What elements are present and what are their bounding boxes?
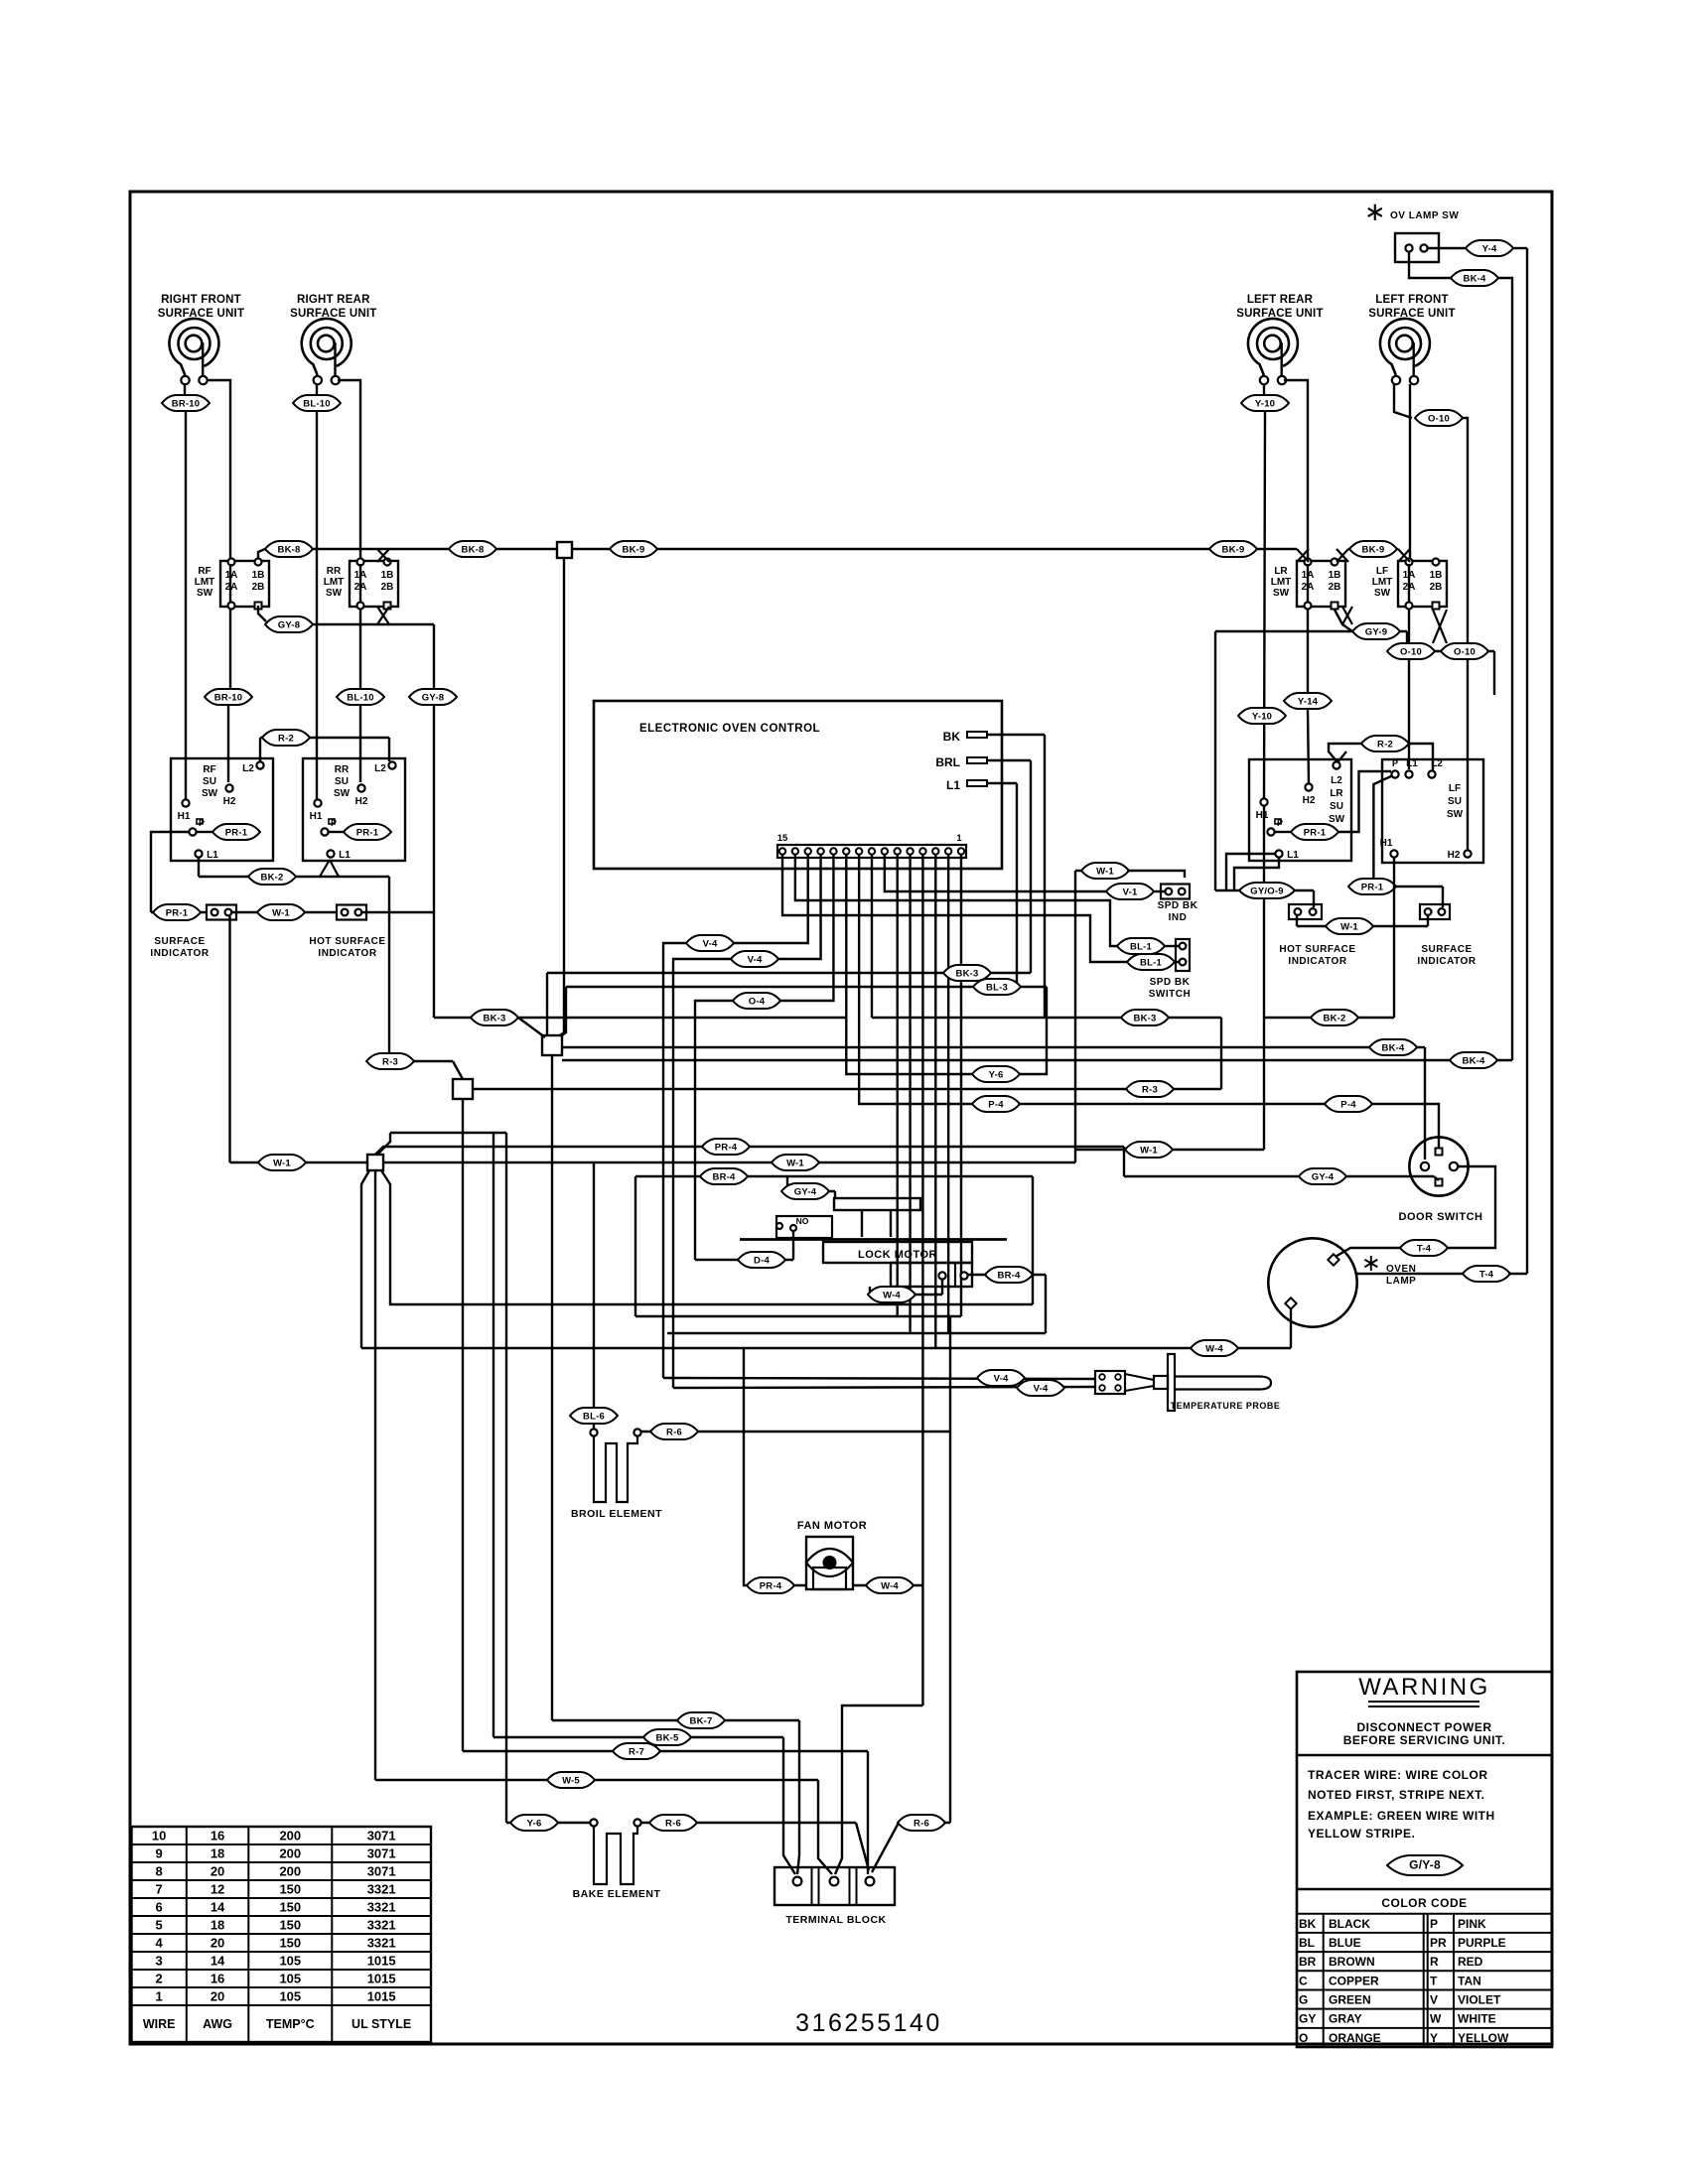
svg-text:15: 15: [777, 833, 788, 844]
svg-text:R-3: R-3: [1142, 1084, 1158, 1095]
svg-text:IND: IND: [1169, 912, 1188, 923]
svg-text:14: 14: [211, 1954, 225, 1969]
svg-text:SWITCH: SWITCH: [1149, 989, 1191, 1000]
svg-text:SURFACE: SURFACE: [154, 936, 205, 947]
svg-text:H1: H1: [1256, 810, 1269, 821]
svg-text:3321: 3321: [367, 1900, 396, 1915]
svg-text:UL STYLE: UL STYLE: [352, 2017, 411, 2031]
svg-text:105: 105: [279, 1954, 301, 1969]
svg-text:PR-1: PR-1: [225, 827, 248, 838]
svg-text:YELLOW STRIPE.: YELLOW STRIPE.: [1308, 1827, 1415, 1841]
svg-text:EXAMPLE: GREEN WIRE WITH: EXAMPLE: GREEN WIRE WITH: [1308, 1809, 1495, 1823]
svg-text:H1: H1: [310, 811, 323, 822]
svg-text:H2: H2: [355, 796, 368, 807]
svg-text:P: P: [1430, 1917, 1438, 1931]
svg-text:P: P: [1392, 758, 1398, 768]
svg-text:SU: SU: [203, 776, 216, 787]
svg-text:TERMINAL BLOCK: TERMINAL BLOCK: [785, 1914, 886, 1926]
svg-text:BK-3: BK-3: [484, 1013, 506, 1024]
svg-text:4: 4: [156, 1936, 164, 1951]
svg-text:105: 105: [279, 1972, 301, 1986]
svg-text:Y-6: Y-6: [527, 1818, 542, 1829]
svg-text:H2: H2: [223, 796, 236, 807]
svg-text:150: 150: [279, 1900, 301, 1915]
svg-text:BR-4: BR-4: [998, 1270, 1021, 1281]
svg-text:LF: LF: [1449, 783, 1461, 794]
svg-text:LMT: LMT: [324, 577, 345, 588]
svg-text:150: 150: [279, 1918, 301, 1933]
svg-text:GREEN: GREEN: [1329, 1993, 1371, 2007]
svg-text:TAN: TAN: [1458, 1974, 1481, 1987]
svg-text:LOCK MOTOR: LOCK MOTOR: [858, 1249, 937, 1261]
svg-text:105: 105: [279, 1989, 301, 2004]
svg-text:R-6: R-6: [914, 1818, 929, 1829]
svg-text:16: 16: [211, 1972, 224, 1986]
svg-text:VIOLET: VIOLET: [1458, 1993, 1501, 2007]
svg-text:2B: 2B: [1329, 582, 1341, 593]
svg-text:LMT: LMT: [1271, 577, 1292, 588]
svg-text:W: W: [1430, 2012, 1442, 2026]
svg-text:O-10: O-10: [1454, 646, 1476, 657]
svg-text:R-6: R-6: [666, 1427, 682, 1437]
svg-text:Y-6: Y-6: [989, 1069, 1004, 1080]
svg-text:G/Y-8: G/Y-8: [1409, 1857, 1441, 1871]
svg-text:BL: BL: [1299, 1936, 1315, 1950]
svg-text:BK: BK: [1299, 1917, 1317, 1931]
svg-text:WARNING: WARNING: [1358, 1674, 1490, 1701]
svg-text:BR: BR: [1299, 1955, 1317, 1969]
svg-text:SPD BK: SPD BK: [1150, 977, 1191, 988]
svg-text:RED: RED: [1458, 1955, 1483, 1969]
svg-text:16: 16: [211, 1829, 224, 1843]
svg-text:HOT SURFACE: HOT SURFACE: [1279, 944, 1355, 955]
svg-text:18: 18: [211, 1846, 224, 1861]
svg-text:INDICATOR: INDICATOR: [1417, 956, 1476, 967]
svg-text:14: 14: [211, 1900, 225, 1915]
svg-text:GRAY: GRAY: [1329, 2012, 1362, 2026]
svg-text:SU: SU: [1448, 796, 1462, 807]
svg-text:GY-8: GY-8: [422, 692, 444, 703]
svg-text:6: 6: [156, 1900, 163, 1915]
svg-text:D-4: D-4: [754, 1255, 770, 1266]
svg-text:BL-10: BL-10: [347, 692, 373, 703]
svg-text:BK-3: BK-3: [1134, 1013, 1157, 1024]
svg-text:LEFT REAR: LEFT REAR: [1247, 294, 1314, 306]
svg-text:PINK: PINK: [1458, 1917, 1486, 1931]
svg-text:W-1: W-1: [786, 1158, 804, 1168]
svg-text:BK-3: BK-3: [956, 968, 979, 979]
svg-text:OV LAMP SW: OV LAMP SW: [1390, 210, 1459, 221]
svg-text:BR-10: BR-10: [172, 398, 200, 409]
svg-text:GY-9: GY-9: [1365, 626, 1387, 637]
svg-text:BK-2: BK-2: [261, 872, 284, 883]
svg-text:W-4: W-4: [881, 1580, 899, 1591]
svg-text:GY-8: GY-8: [278, 619, 300, 630]
svg-text:Y-14: Y-14: [1298, 696, 1319, 707]
svg-text:SURFACE UNIT: SURFACE UNIT: [158, 308, 244, 320]
svg-text:10: 10: [152, 1829, 166, 1843]
svg-text:LMT: LMT: [195, 577, 215, 588]
svg-text:BK-5: BK-5: [656, 1732, 679, 1743]
svg-text:BL-10: BL-10: [303, 398, 330, 409]
svg-text:RIGHT FRONT: RIGHT FRONT: [161, 294, 241, 306]
svg-text:BL-3: BL-3: [986, 982, 1008, 993]
svg-text:3: 3: [156, 1954, 163, 1969]
svg-text:7: 7: [156, 1882, 163, 1897]
svg-text:BROWN: BROWN: [1329, 1955, 1375, 1969]
svg-text:SW: SW: [1447, 809, 1464, 820]
svg-text:5: 5: [156, 1918, 163, 1933]
svg-text:BEFORE SERVICING UNIT.: BEFORE SERVICING UNIT.: [1343, 1733, 1505, 1747]
svg-text:SURFACE UNIT: SURFACE UNIT: [1236, 308, 1323, 320]
svg-text:Y-10: Y-10: [1252, 711, 1272, 722]
svg-text:2: 2: [156, 1972, 163, 1986]
svg-text:W-4: W-4: [1205, 1343, 1223, 1354]
svg-text:PR-1: PR-1: [356, 827, 379, 838]
svg-text:AWG: AWG: [203, 2017, 232, 2031]
svg-text:20: 20: [211, 1989, 224, 2004]
svg-text:O-4: O-4: [749, 996, 766, 1007]
svg-text:150: 150: [279, 1882, 301, 1897]
svg-text:BK-9: BK-9: [1362, 544, 1385, 555]
svg-text:NO: NO: [796, 1216, 809, 1226]
svg-text:V-4: V-4: [1034, 1383, 1049, 1394]
svg-text:316255140: 316255140: [795, 2009, 942, 2037]
svg-text:BK-2: BK-2: [1324, 1013, 1346, 1024]
svg-text:BK-9: BK-9: [1222, 544, 1245, 555]
svg-text:PR-4: PR-4: [715, 1142, 738, 1153]
svg-text:BL-1: BL-1: [1140, 957, 1162, 968]
svg-text:TEMP°C: TEMP°C: [266, 2017, 315, 2031]
svg-text:1B: 1B: [252, 570, 265, 581]
svg-text:PR-4: PR-4: [760, 1580, 782, 1591]
svg-text:W-5: W-5: [562, 1775, 580, 1786]
svg-text:PURPLE: PURPLE: [1458, 1936, 1506, 1950]
svg-text:R-2: R-2: [278, 733, 294, 744]
svg-text:SU: SU: [1330, 801, 1343, 812]
svg-text:2B: 2B: [1430, 582, 1443, 593]
svg-text:DOOR SWITCH: DOOR SWITCH: [1399, 1211, 1483, 1223]
svg-text:BK-4: BK-4: [1382, 1042, 1405, 1053]
svg-text:O: O: [1299, 2031, 1308, 2045]
svg-text:L1: L1: [1406, 758, 1418, 769]
svg-text:GY: GY: [1299, 2012, 1316, 2026]
svg-text:SW: SW: [1374, 588, 1391, 599]
svg-text:3321: 3321: [367, 1936, 396, 1951]
svg-text:SW: SW: [197, 588, 213, 599]
svg-text:INDICATOR: INDICATOR: [1288, 956, 1346, 967]
svg-text:SPD BK: SPD BK: [1158, 900, 1198, 911]
svg-text:L1: L1: [946, 778, 960, 792]
svg-text:SU: SU: [335, 776, 349, 787]
svg-text:1: 1: [156, 1989, 163, 2004]
svg-text:20: 20: [211, 1936, 224, 1951]
svg-text:9: 9: [156, 1846, 163, 1861]
svg-text:ELECTRONIC OVEN CONTROL: ELECTRONIC OVEN CONTROL: [639, 723, 820, 735]
svg-text:SW: SW: [1273, 588, 1290, 599]
svg-text:1B: 1B: [1329, 570, 1341, 581]
svg-text:BK-9: BK-9: [623, 544, 645, 555]
svg-text:3321: 3321: [367, 1918, 396, 1933]
svg-text:RF: RF: [203, 764, 215, 775]
svg-text:R-3: R-3: [382, 1056, 398, 1067]
svg-text:BL-6: BL-6: [583, 1411, 605, 1422]
svg-text:L1: L1: [1287, 850, 1299, 861]
svg-text:L1: L1: [339, 850, 351, 861]
svg-text:L2: L2: [1331, 775, 1342, 786]
svg-text:TRACER WIRE: WIRE COLOR: TRACER WIRE: WIRE COLOR: [1308, 1768, 1488, 1782]
svg-text:3071: 3071: [367, 1829, 396, 1843]
svg-text:1015: 1015: [367, 1954, 396, 1969]
svg-text:RIGHT REAR: RIGHT REAR: [297, 294, 370, 306]
svg-text:COLOR CODE: COLOR CODE: [1381, 1896, 1467, 1910]
svg-text:1B: 1B: [381, 570, 394, 581]
svg-text:V-4: V-4: [994, 1373, 1009, 1384]
svg-text:V-4: V-4: [748, 954, 763, 965]
svg-text:1015: 1015: [367, 1972, 396, 1986]
svg-text:V-1: V-1: [1123, 887, 1138, 897]
svg-text:Y-4: Y-4: [1482, 243, 1497, 254]
svg-text:BK-8: BK-8: [278, 544, 301, 555]
svg-text:BK-4: BK-4: [1464, 273, 1486, 284]
svg-text:LAMP: LAMP: [1386, 1276, 1416, 1287]
svg-text:R-2: R-2: [1377, 739, 1393, 750]
svg-text:PR-1: PR-1: [1361, 882, 1384, 892]
svg-text:H1: H1: [1380, 838, 1393, 849]
svg-text:O-10: O-10: [1400, 646, 1422, 657]
svg-text:FAN MOTOR: FAN MOTOR: [797, 1520, 867, 1532]
svg-text:V-4: V-4: [703, 938, 718, 949]
svg-text:W-1: W-1: [273, 1158, 291, 1168]
svg-text:Y: Y: [1430, 2031, 1438, 2045]
svg-text:1B: 1B: [1430, 570, 1443, 581]
svg-text:R-7: R-7: [629, 1746, 644, 1757]
svg-text:T-4: T-4: [1417, 1243, 1432, 1254]
svg-text:P-4: P-4: [988, 1099, 1004, 1110]
svg-text:8: 8: [156, 1864, 163, 1879]
svg-text:BK-8: BK-8: [462, 544, 485, 555]
svg-text:L1: L1: [207, 850, 218, 861]
svg-text:GY-4: GY-4: [794, 1186, 817, 1197]
svg-text:3071: 3071: [367, 1846, 396, 1861]
svg-text:PR-1: PR-1: [166, 907, 189, 918]
svg-text:SURFACE UNIT: SURFACE UNIT: [1368, 308, 1455, 320]
svg-text:200: 200: [279, 1829, 301, 1843]
svg-text:SW: SW: [202, 788, 218, 799]
svg-text:P-4: P-4: [1340, 1099, 1356, 1110]
svg-text:Y-10: Y-10: [1255, 398, 1275, 409]
svg-text:12: 12: [211, 1882, 224, 1897]
svg-text:G: G: [1299, 1993, 1308, 2007]
svg-text:BLACK: BLACK: [1329, 1917, 1370, 1931]
svg-text:TEMPERATURE PROBE: TEMPERATURE PROBE: [1171, 1401, 1281, 1411]
svg-text:L2: L2: [374, 763, 386, 774]
svg-text:BK-7: BK-7: [690, 1715, 713, 1726]
svg-text:NOTED FIRST, STRIPE NEXT.: NOTED FIRST, STRIPE NEXT.: [1308, 1788, 1485, 1802]
svg-text:200: 200: [279, 1846, 301, 1861]
svg-text:∗: ∗: [1364, 197, 1386, 226]
svg-text:R-6: R-6: [665, 1818, 681, 1829]
svg-text:BK: BK: [943, 730, 961, 744]
svg-text:COPPER: COPPER: [1329, 1974, 1379, 1987]
svg-text:20: 20: [211, 1864, 224, 1879]
svg-text:150: 150: [279, 1936, 301, 1951]
svg-text:3321: 3321: [367, 1882, 396, 1897]
svg-text:H1: H1: [178, 811, 191, 822]
svg-text:LEFT FRONT: LEFT FRONT: [1375, 294, 1449, 306]
svg-text:SURFACE: SURFACE: [1421, 944, 1472, 955]
svg-text:DISCONNECT POWER: DISCONNECT POWER: [1356, 1720, 1491, 1734]
svg-text:W-1: W-1: [1140, 1145, 1158, 1156]
svg-text:BL-1: BL-1: [1130, 941, 1152, 952]
svg-text:LF: LF: [1376, 566, 1388, 577]
svg-text:RR: RR: [335, 764, 350, 775]
svg-text:PR-1: PR-1: [1304, 827, 1327, 838]
svg-text:SW: SW: [334, 788, 351, 799]
svg-text:H2: H2: [1303, 795, 1316, 806]
svg-text:T: T: [1430, 1974, 1438, 1987]
svg-text:INDICATOR: INDICATOR: [318, 948, 376, 959]
svg-text:W-1: W-1: [272, 907, 290, 918]
svg-text:BROIL ELEMENT: BROIL ELEMENT: [571, 1508, 662, 1520]
svg-text:SURFACE UNIT: SURFACE UNIT: [290, 308, 376, 320]
svg-text:BLUE: BLUE: [1329, 1936, 1361, 1950]
svg-text:3071: 3071: [367, 1864, 396, 1879]
svg-text:INDICATOR: INDICATOR: [150, 948, 209, 959]
svg-text:GY-4: GY-4: [1312, 1171, 1335, 1182]
svg-text:W-1: W-1: [1340, 921, 1358, 932]
svg-text:PR: PR: [1430, 1936, 1447, 1950]
svg-text:WIRE: WIRE: [143, 2017, 176, 2031]
svg-text:BRL: BRL: [935, 755, 960, 769]
svg-text:RF: RF: [198, 566, 211, 577]
svg-text:2B: 2B: [381, 582, 394, 593]
svg-text:T-4: T-4: [1479, 1269, 1494, 1280]
svg-text:BAKE ELEMENT: BAKE ELEMENT: [573, 1888, 661, 1900]
svg-text:RR: RR: [327, 566, 342, 577]
svg-text:GY/O-9: GY/O-9: [1250, 886, 1283, 896]
svg-text:1015: 1015: [367, 1989, 396, 2004]
svg-text:W-1: W-1: [1096, 866, 1114, 877]
svg-text:2B: 2B: [252, 582, 265, 593]
svg-text:WHITE: WHITE: [1458, 2012, 1496, 2026]
svg-text:YELLOW: YELLOW: [1458, 2031, 1509, 2045]
svg-text:V: V: [1430, 1993, 1438, 2007]
svg-text:LR: LR: [1274, 566, 1288, 577]
svg-text:HOT SURFACE: HOT SURFACE: [309, 936, 385, 947]
svg-text:W-4: W-4: [883, 1290, 901, 1300]
svg-text:LMT: LMT: [1372, 577, 1393, 588]
svg-text:18: 18: [211, 1918, 224, 1933]
svg-text:SW: SW: [1329, 814, 1345, 825]
svg-text:1: 1: [956, 833, 962, 844]
svg-text:C: C: [1299, 1974, 1308, 1987]
svg-text:L2: L2: [1431, 758, 1443, 769]
svg-text:BR-4: BR-4: [713, 1171, 736, 1182]
svg-text:R: R: [1430, 1955, 1439, 1969]
svg-text:H2: H2: [1448, 850, 1461, 861]
svg-text:O-10: O-10: [1428, 413, 1450, 424]
svg-text:ORANGE: ORANGE: [1329, 2031, 1381, 2045]
svg-text:SW: SW: [326, 588, 343, 599]
svg-text:BR-10: BR-10: [214, 692, 242, 703]
svg-text:LR: LR: [1330, 788, 1343, 799]
svg-text:200: 200: [279, 1864, 301, 1879]
svg-text:BK-4: BK-4: [1463, 1055, 1485, 1066]
svg-text:L2: L2: [242, 763, 254, 774]
